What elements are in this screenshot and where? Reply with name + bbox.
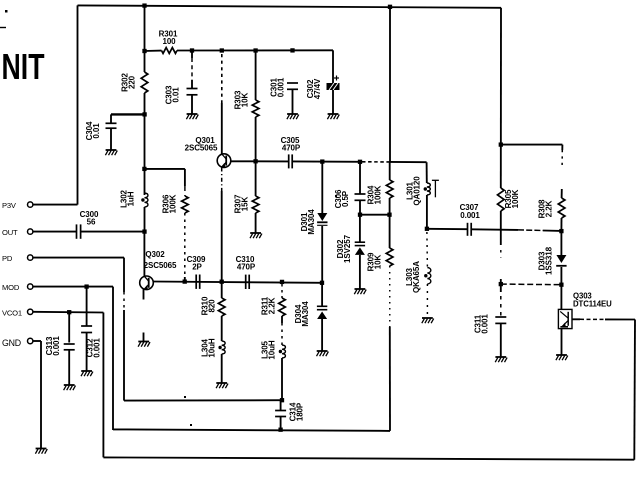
wire Q301 collector column (dash-dot top) xyxy=(221,54,223,103)
junction top rail / R302 column xyxy=(142,3,146,7)
wire PD down xyxy=(123,258,125,292)
svg-text:100K: 100K xyxy=(511,189,520,208)
svg-text:470P: 470P xyxy=(237,263,256,272)
svg-text:1uH: 1uH xyxy=(126,191,135,206)
wire bias rail xyxy=(177,49,333,51)
wire MOD rail to R309 xyxy=(113,429,390,431)
svg-text:0.001: 0.001 xyxy=(52,336,61,356)
transistor Q302 xyxy=(140,276,154,290)
ground C301 xyxy=(287,114,299,119)
wire C304 link (thick) xyxy=(111,113,145,115)
svg-text:10uH: 10uH xyxy=(267,340,276,359)
svg-text:2.2K: 2.2K xyxy=(267,297,276,314)
svg-text:QA0120: QA0120 xyxy=(412,176,421,206)
capacitor C313 xyxy=(68,312,70,342)
svg-text:0.001: 0.001 xyxy=(92,338,101,358)
svg-text:0.01: 0.01 xyxy=(171,87,180,103)
wire rail corner to R305 xyxy=(500,8,502,188)
capacitor C311 xyxy=(500,284,502,292)
capacitor C302 electrolytic xyxy=(332,50,334,83)
resistor R301 xyxy=(162,48,178,54)
capacitor C304 xyxy=(110,114,112,122)
junction R311 / L305 xyxy=(280,280,284,284)
svg-text:OUT: OUT xyxy=(2,228,18,237)
transistor Q303 digital xyxy=(558,309,572,328)
ground L303 xyxy=(422,318,434,323)
resistor R302 xyxy=(141,72,148,93)
svg-text:10uH: 10uH xyxy=(207,338,216,357)
wire link to D303 node (dashed) xyxy=(501,283,562,286)
svg-text:P3V: P3V xyxy=(2,201,17,210)
svg-text:NIT: NIT xyxy=(2,46,45,87)
wire L302 to OSC-OUT node xyxy=(144,207,146,232)
wire corner to L301 xyxy=(426,162,428,183)
ground D304 xyxy=(317,351,329,356)
junction D301 / D304 xyxy=(320,281,324,285)
junction OSC-OUT node xyxy=(142,229,146,233)
svg-text:180P: 180P xyxy=(295,402,304,421)
junction varactor node xyxy=(358,213,362,217)
wire L305 to PD node xyxy=(281,358,283,400)
wire rail to R301 node xyxy=(144,6,146,72)
svg-text:MA304: MA304 xyxy=(307,209,316,235)
ground C312 xyxy=(81,371,93,376)
resistor R307 xyxy=(255,161,257,196)
inductor L302 xyxy=(145,193,148,207)
junction Q301 collector xyxy=(220,48,224,52)
resistor R306 xyxy=(184,169,186,186)
svg-text:10K: 10K xyxy=(373,254,382,269)
wire R308 to D303 xyxy=(560,218,562,231)
junction R301 tap xyxy=(142,49,146,53)
junction C306 top xyxy=(358,160,362,164)
ground C303 xyxy=(186,114,198,119)
wire R309 to MOD rail xyxy=(389,266,391,327)
varactor D304 xyxy=(321,283,323,306)
ground D302 xyxy=(354,289,366,294)
svg-text:2P: 2P xyxy=(192,263,202,272)
scan speck xyxy=(184,396,186,398)
ground GND terminal xyxy=(35,449,47,454)
ground R307 xyxy=(250,233,262,238)
svg-text:47/4V: 47/4V xyxy=(313,78,322,99)
wire PD right xyxy=(33,257,124,259)
junction VCO1/C313 xyxy=(67,310,71,314)
svg-text:15K: 15K xyxy=(240,196,249,211)
wire MOD down xyxy=(112,287,114,430)
wire Q303 emitter xyxy=(561,329,563,355)
svg-text:VCO1: VCO1 xyxy=(2,308,22,317)
resistor R303 xyxy=(255,51,257,101)
wire R303 to base node xyxy=(255,117,257,161)
wire feedback rail xyxy=(153,282,322,283)
wire L301 to C307 node xyxy=(426,195,428,229)
svg-text:220: 220 xyxy=(127,75,136,89)
junction C314 on MOD rail xyxy=(278,428,282,432)
junction C301 xyxy=(290,48,294,52)
wire MOD right xyxy=(33,286,113,288)
wire node to Q302 collector xyxy=(143,232,145,277)
junction R308 branch xyxy=(499,142,503,146)
wire R301 left lead xyxy=(145,50,162,52)
svg-text:470P: 470P xyxy=(282,144,301,153)
svg-text:Q302: Q302 xyxy=(145,250,165,259)
trimmer mark L301 xyxy=(432,180,439,197)
wire to L303 (dash-dot) xyxy=(426,232,429,268)
junction C307 node xyxy=(425,227,429,231)
svg-text:10K: 10K xyxy=(240,92,249,107)
junction R306 bottom xyxy=(183,279,187,283)
wire P3V to left rail xyxy=(33,204,78,206)
wire top rail xyxy=(78,5,502,7)
terminal GND xyxy=(28,338,33,343)
junction C311 node xyxy=(499,282,503,286)
svg-text:100: 100 xyxy=(162,37,176,46)
ground C313 xyxy=(64,385,76,390)
svg-text:56: 56 xyxy=(87,217,96,226)
wire L304 to ground xyxy=(221,354,223,383)
svg-text:MA304: MA304 xyxy=(301,301,310,327)
diode D301 xyxy=(321,162,323,213)
svg-text:0.001: 0.001 xyxy=(460,211,480,220)
wire VCO1 bottom rail to Q303 base xyxy=(103,457,634,459)
wire R306 link xyxy=(144,168,185,170)
scan dash left edge xyxy=(0,27,6,29)
wire C305 to L301 corner xyxy=(292,160,362,162)
svg-text:GND: GND xyxy=(2,338,21,348)
junction C303 xyxy=(190,48,194,52)
capacitor C306 xyxy=(359,162,361,194)
wire C307 to R308 node xyxy=(471,228,518,231)
resistor R304 xyxy=(389,162,391,180)
capacitor C301 xyxy=(287,83,298,89)
wire Q303 base right xyxy=(572,318,580,320)
wire varactor node link xyxy=(360,214,390,216)
inductor L301 xyxy=(427,183,430,195)
varactor D302 xyxy=(359,215,361,242)
inductor L304 xyxy=(222,341,225,354)
svg-text:1SS318: 1SS318 xyxy=(544,246,553,275)
wire C304 node to R306 tap xyxy=(144,114,146,195)
junction R308/D303/C307 xyxy=(559,229,563,233)
wire GND xyxy=(33,340,41,342)
wire VCO1 down xyxy=(102,313,104,458)
ground C311 xyxy=(495,357,507,362)
junction R306 tap xyxy=(142,167,146,171)
svg-text:2.2K: 2.2K xyxy=(544,200,553,217)
wire R305 to C311 node (faded) xyxy=(500,211,502,245)
junction L305/C314/PD xyxy=(280,398,284,402)
svg-text:0.001: 0.001 xyxy=(480,314,489,334)
capacitor C312 xyxy=(86,287,88,326)
svg-text:1SV257: 1SV257 xyxy=(343,234,352,263)
svg-text:2SC5065: 2SC5065 xyxy=(185,144,218,153)
scan speck top-left xyxy=(5,10,8,13)
svg-text:0.001: 0.001 xyxy=(276,77,285,97)
resistor R305 xyxy=(498,188,505,211)
svg-text:QKA65A: QKA65A xyxy=(412,261,421,293)
wire VCO1 right xyxy=(33,311,103,314)
wire Q301 emitter column (dash-dot top) xyxy=(221,168,223,192)
capacitor C310 xyxy=(246,275,250,289)
wire rail to oscillator line xyxy=(389,7,391,162)
svg-text:2SC5065: 2SC5065 xyxy=(144,261,177,270)
transistor Q301 xyxy=(217,154,231,168)
wire to Q303 collector xyxy=(560,285,562,310)
ground L304 xyxy=(216,383,228,388)
ground C302 xyxy=(327,114,339,119)
resistor R309 xyxy=(389,215,391,248)
capacitor C309 xyxy=(196,275,200,289)
ground Q303 xyxy=(556,355,568,360)
inductor L303 xyxy=(427,268,430,285)
junction Q301 emitter / R310 xyxy=(220,280,224,284)
svg-text:0.01: 0.01 xyxy=(92,123,101,139)
resistor R308 xyxy=(558,198,565,218)
wire Q301 base to node xyxy=(231,160,288,162)
inductor L305 xyxy=(282,345,285,358)
svg-text:MOD: MOD xyxy=(2,283,20,292)
resistor R310 xyxy=(221,282,223,298)
wire C300 to node OSC-OUT xyxy=(81,231,145,233)
junction D301 top xyxy=(320,159,324,163)
junction base node xyxy=(253,159,257,163)
wire C307 left xyxy=(427,228,468,230)
wire R308 branch xyxy=(501,144,563,146)
svg-text:PD: PD xyxy=(2,254,13,263)
junction C304 link xyxy=(142,112,146,116)
capacitor C303 xyxy=(191,51,193,59)
resistor R311 xyxy=(281,284,283,298)
capacitor C305 xyxy=(289,154,293,168)
svg-text:820: 820 xyxy=(207,299,216,313)
terminal MOD xyxy=(28,284,33,289)
svg-text:DTC114EU: DTC114EU xyxy=(573,300,612,309)
ground C304 xyxy=(105,150,117,155)
wire L303 to ground (dashed) xyxy=(426,284,428,318)
capacitor C300 xyxy=(77,224,81,238)
junction D303/Q303 xyxy=(559,283,563,287)
svg-text:0.5P: 0.5P xyxy=(341,190,350,207)
terminal VCO1 xyxy=(28,309,33,314)
ground Q302 emitter xyxy=(138,342,150,347)
wire Q302 emitter (faded) xyxy=(143,289,145,299)
capacitor C314 xyxy=(280,400,282,410)
wire PD rail to L305/C314 node xyxy=(124,399,282,401)
capacitor C307 xyxy=(468,223,472,236)
wire R302 to C304 node xyxy=(144,93,146,114)
terminal OUT xyxy=(28,229,33,234)
diode D303 xyxy=(560,231,562,255)
svg-text:100K: 100K xyxy=(373,185,382,204)
terminal PD xyxy=(28,255,33,260)
junction R304 bottom xyxy=(387,213,391,217)
junction top rail / R304 column xyxy=(388,5,392,9)
junction R303 xyxy=(253,48,257,52)
junction MOD/C312 xyxy=(84,284,88,288)
wire left supply rail xyxy=(77,5,79,204)
terminal P3V xyxy=(28,202,33,207)
wire OUT to C300 xyxy=(33,231,77,233)
svg-text:100K: 100K xyxy=(168,194,177,213)
wire Q303 base down to bottom rail xyxy=(633,320,636,460)
